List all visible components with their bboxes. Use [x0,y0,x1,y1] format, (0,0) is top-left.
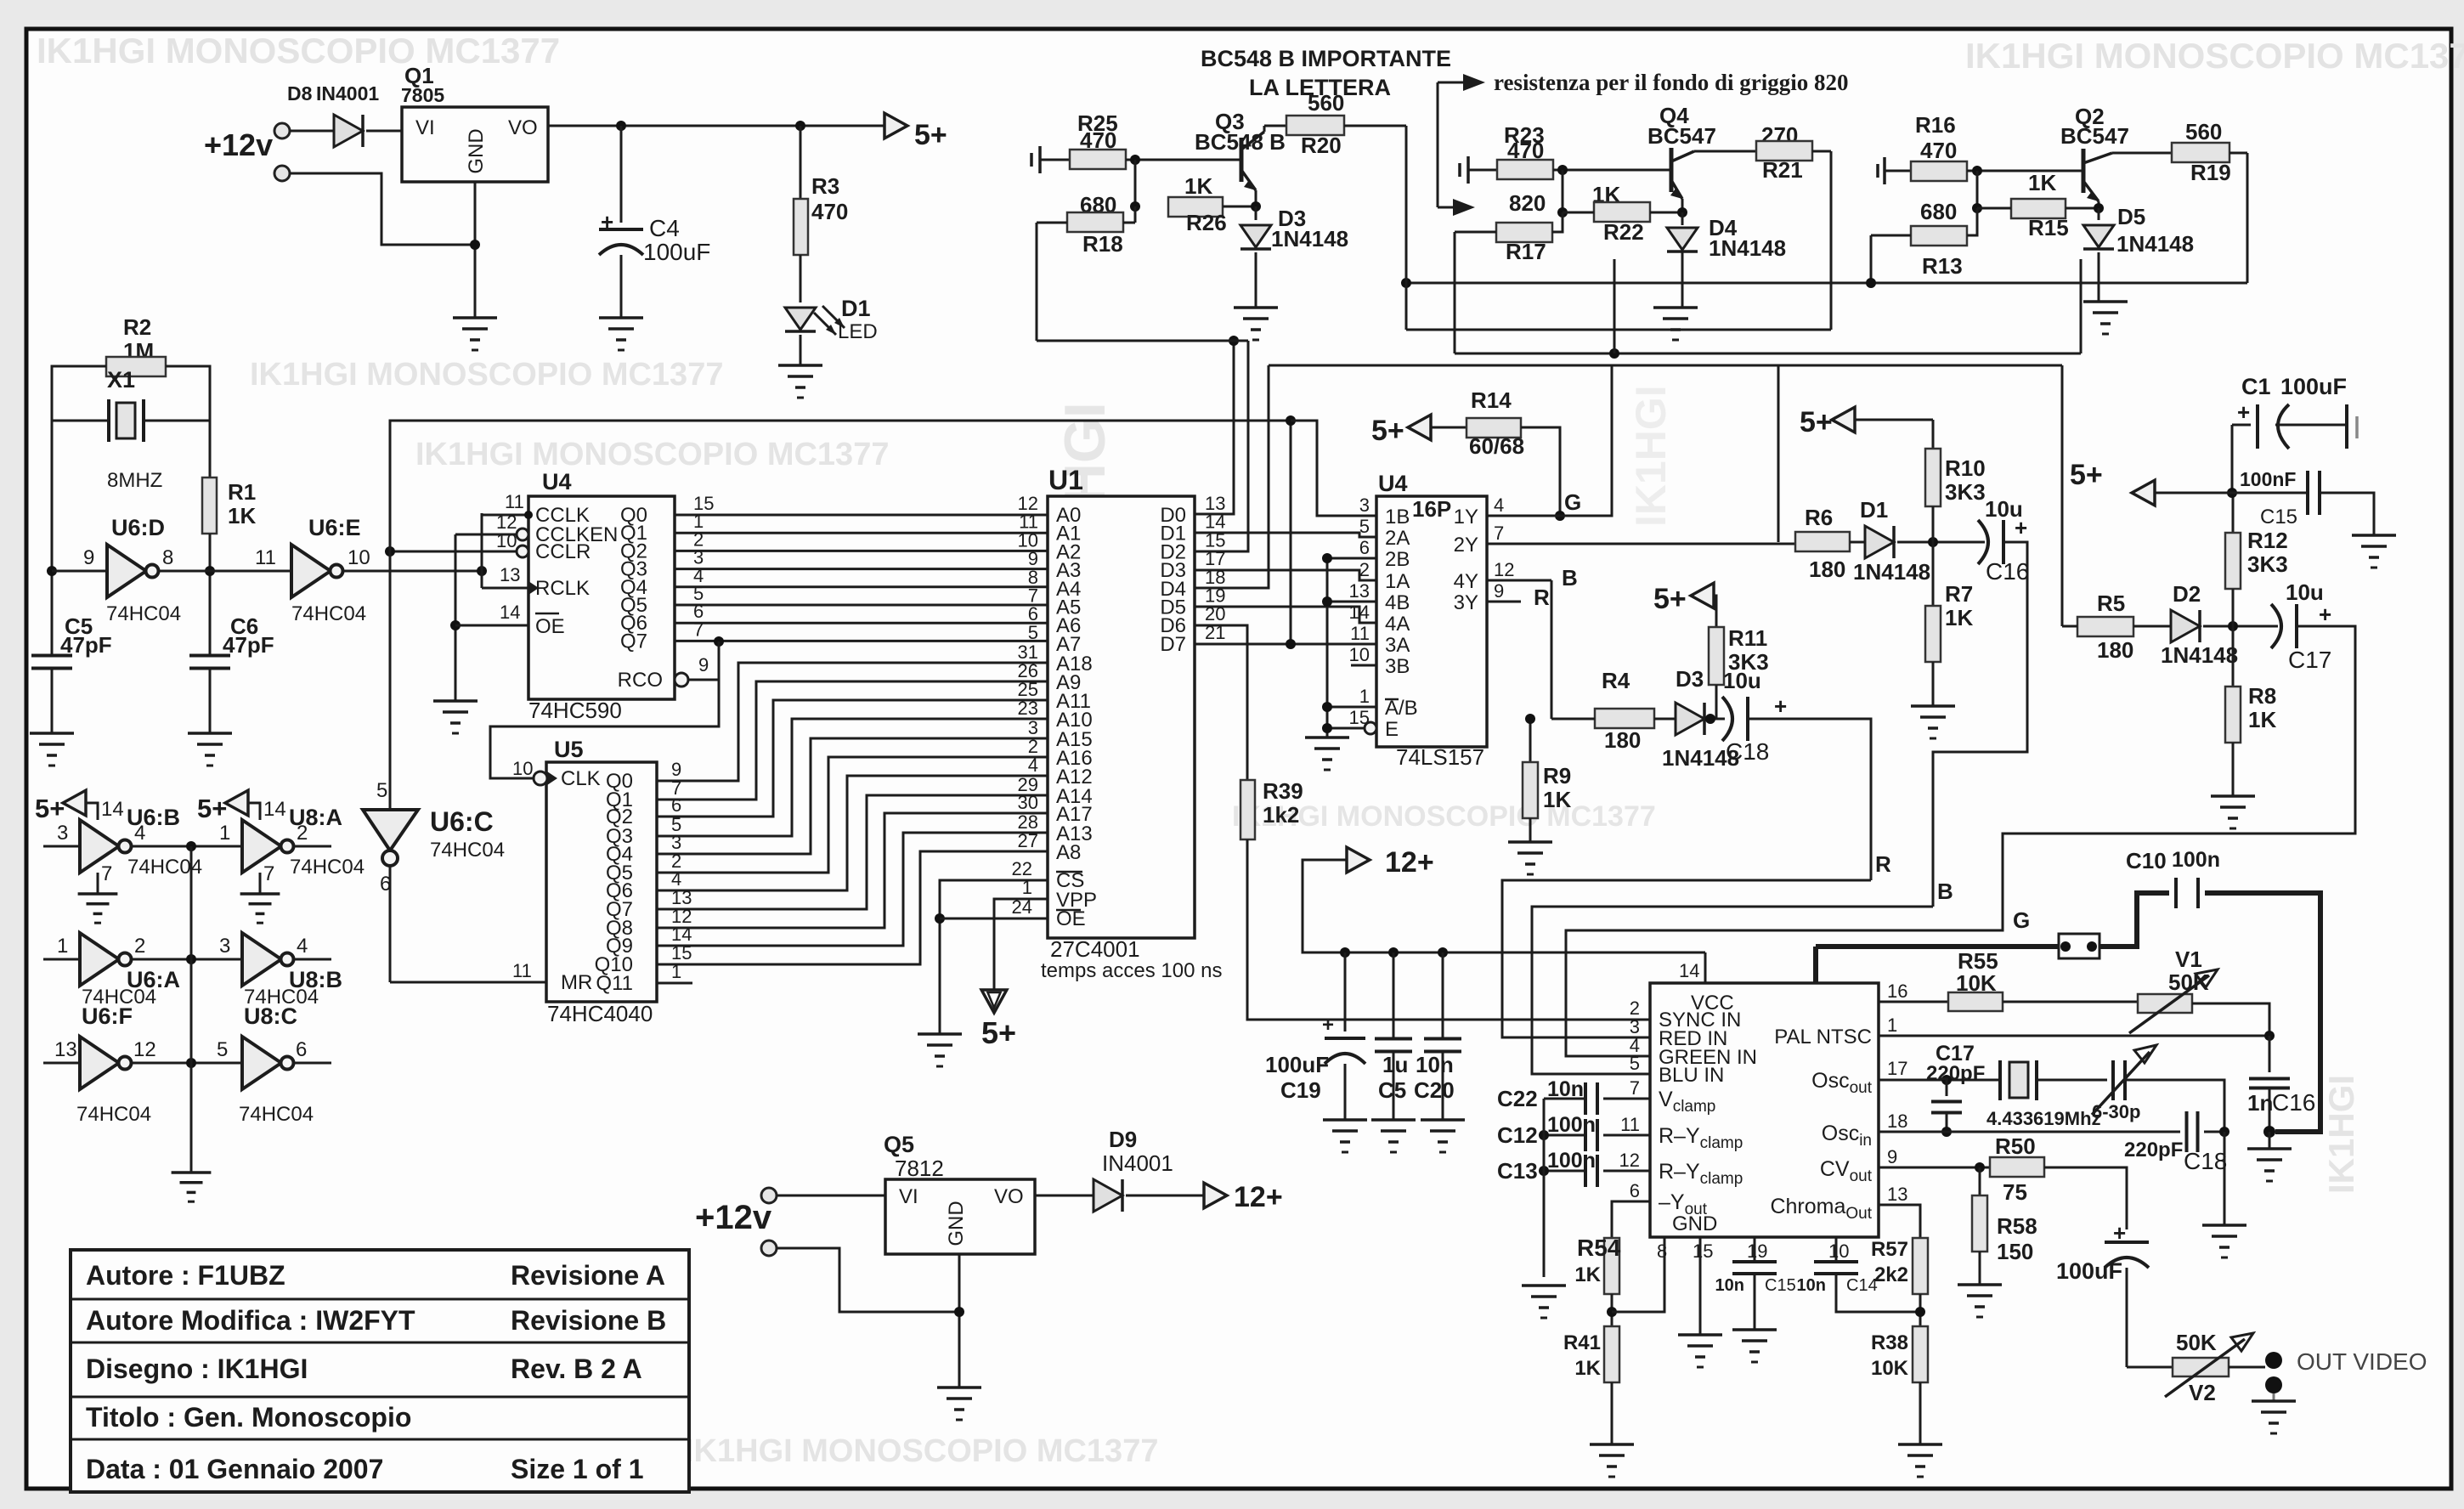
svg-text:7805: 7805 [401,84,444,106]
ground CCLKEN/OE [433,699,478,703]
svg-text:100uF: 100uF [2056,1258,2122,1284]
resistor R11 3K3 [1715,607,1718,627]
svg-text:+: + [1322,1014,1334,1037]
svg-text:BC548 B IMPORTANTE: BC548 B IMPORTANTE [1201,46,1451,71]
svg-text:9: 9 [698,654,709,675]
wire pin6 -Yout to R54 [1612,1201,1650,1239]
ground 74LS157 [1305,736,1349,739]
svg-text:2: 2 [297,822,308,845]
wire 1B riser [1291,421,1376,516]
terminator C1 [2345,404,2348,449]
ground C20 [1421,1118,1465,1122]
svg-text:R13: R13 [1922,253,1963,279]
wire C18 out to R line [1748,719,1871,880]
wire C16 out to B line [1933,542,2027,907]
svg-text:VO: VO [508,116,538,139]
svg-text:C20: C20 [1414,1077,1455,1103]
svg-text:D5: D5 [2117,204,2145,229]
svg-text:Q5: Q5 [884,1132,914,1157]
svg-text:D8: D8 [287,82,313,105]
wire R39 to SYNC IN [1247,839,1650,1020]
svg-text:C16: C16 [2272,1089,2315,1116]
svg-text:10: 10 [348,546,370,569]
svg-text:60/68: 60/68 [1469,433,1524,459]
wire annotation vertical [1437,82,1439,207]
svg-text:5: 5 [1028,622,1038,643]
svg-text:GND: GND [1672,1212,1717,1235]
svg-text:14: 14 [263,798,286,821]
svg-text:IK1HGI MONOSCOPIO MC1377: IK1HGI MONOSCOPIO MC1377 [37,31,560,71]
svg-text:1N4148: 1N4148 [1271,226,1348,251]
svg-text:IN4001: IN4001 [316,82,379,105]
wire 12+ rail [1303,860,1705,952]
wire stub y416 junction [1613,259,1616,353]
wire R17 right [1552,212,1563,232]
ground D3 [1234,306,1278,309]
svg-text:IK1HGI MONOSCOPIO MC1377: IK1HGI MONOSCOPIO MC1377 [250,357,723,393]
svg-text:7: 7 [263,862,274,885]
wire riser to R5 [2061,365,2064,626]
ground D1 [778,364,822,367]
svg-text:13: 13 [500,564,520,585]
svg-text:GND: GND [465,128,488,173]
svg-text:47pF: 47pF [223,632,274,658]
svg-text:9: 9 [1494,580,1504,602]
inverter U8:A [242,820,281,873]
ground stub R25 [1030,153,1033,167]
wire 157 input stubs [1327,557,1376,560]
svg-text:IN4001: IN4001 [1102,1150,1173,1176]
wire D5 to 4A [1195,607,1376,623]
ground R38 [1898,1443,1942,1446]
svg-text:6-30p: 6-30p [2092,1101,2140,1122]
wire C1 down rail [2231,425,2234,493]
svg-text:+: + [2319,602,2331,627]
wire R18 left loop [1037,222,1067,224]
ground R58 [1958,1283,2002,1286]
wire VCC pin14 [1704,952,1707,983]
svg-text:74LS157: 74LS157 [1396,744,1484,770]
svg-text:14: 14 [1349,602,1370,623]
svg-text:C16: C16 [1986,558,2029,585]
svg-text:74HC04: 74HC04 [430,839,505,862]
wire U6:D out to U6:E in [160,570,291,573]
svg-text:U6:D: U6:D [111,515,165,540]
wire D1 to 2A [1195,533,1376,537]
crystal 4.433619Mhz [1998,1060,2002,1100]
svg-text:10: 10 [512,758,533,779]
svg-text:R57: R57 [1871,1238,1908,1261]
svg-text:R2: R2 [123,314,151,340]
wire U8:B out [295,958,331,961]
wire D8 to Q1 [366,130,402,133]
wire 4Y R out [1487,579,1551,582]
wire Q3 collector to R20 [1263,126,1266,132]
ground Q1 [453,316,497,319]
terminal OUT VIDEO [2265,1352,2282,1369]
svg-text:4Y: 4Y [1454,570,1478,593]
capacitor C18 10u [1722,697,1732,741]
svg-text:1K: 1K [228,503,256,528]
inverter U6:D [52,570,107,573]
wire CCLR to U6:C rail [390,551,528,553]
svg-text:U6:C: U6:C [430,806,494,837]
svg-text:R4: R4 [1602,668,1630,693]
wire +12v to D8 [290,130,341,133]
heavy G switch wire [1816,944,2059,949]
svg-text:74HC04: 74HC04 [290,856,365,879]
svg-text:GND: GND [945,1201,968,1246]
svg-text:R41: R41 [1563,1331,1601,1354]
wire VO to D9 [1035,1195,1094,1197]
trimmer 6-30p [2111,1060,2115,1100]
svg-text:74HC04: 74HC04 [76,1103,151,1126]
LED D1 [800,255,802,302]
svg-text:5+: 5+ [914,119,947,151]
svg-text:U6:E: U6:E [308,515,361,540]
svg-text:C10: C10 [2126,848,2167,873]
svg-text:CCLR: CCLR [535,540,591,563]
wire R16 to base [1967,170,2083,172]
wire VPP to 5+ [994,899,1048,992]
wire CCLKEN/OE ground rail [455,534,457,701]
svg-text:1A: 1A [1385,570,1410,593]
svg-text:C15: C15 [2260,506,2297,528]
resistor R8 1K [2232,626,2235,687]
wire R15 ends [1977,207,2011,210]
wire R line to RED IN [1502,880,1871,1037]
svg-text:2: 2 [134,935,145,958]
capacitor C20 10n [1442,952,1444,1038]
svg-text:R7: R7 [1945,581,1973,607]
diode D4 1N4148 [1681,212,1684,225]
svg-text:14: 14 [101,798,124,821]
svg-text:R: R [1875,851,1891,877]
wire C15 to ground [2320,493,2374,535]
regulator Q1 7805 [402,107,548,182]
svg-text:Titolo : Gen. Monoscopio: Titolo : Gen. Monoscopio [86,1402,411,1433]
svg-text:13: 13 [1349,580,1370,602]
svg-text:9: 9 [1887,1146,1897,1167]
svg-text:74HC04: 74HC04 [291,602,366,625]
svg-text:R8: R8 [2248,683,2276,709]
svg-text:U5: U5 [554,737,584,762]
ground C5 [30,732,74,735]
svg-text:4: 4 [1494,495,1504,516]
diode D3 Q3 1N4148 [1255,206,1257,220]
svg-text:10u: 10u [1723,668,1761,693]
wire pin13 ChromaOut to R57 [1879,1205,1920,1239]
svg-text:1B: 1B [1385,506,1410,528]
svg-text:3: 3 [219,935,230,958]
wire pin12 [1603,1170,1650,1173]
svg-text:10n: 10n [1416,1052,1454,1077]
wire R25 junction down [1134,160,1137,206]
wire Q5 return [777,1248,959,1312]
inverter U6:C [363,810,418,851]
svg-text:4: 4 [1028,754,1038,776]
left rail to C5 [51,421,54,655]
wire R18 right [1123,222,1135,224]
wire V1 out [2192,1003,2269,1036]
wire V2 to OUT VIDEO [2229,1366,2265,1369]
svg-text:5+: 5+ [1371,415,1404,447]
svg-text:560: 560 [1308,90,1344,116]
wire OE [940,918,1048,920]
svg-text:100nF: 100nF [2240,468,2296,490]
wire R2 left [52,366,106,421]
svg-text:D2: D2 [2173,581,2201,607]
svg-text:IK1HGI: IK1HGI [2321,1075,2361,1194]
svg-text:3: 3 [57,822,68,845]
svg-text:Autore Modifica : IW2FYT: Autore Modifica : IW2FYT [86,1305,415,1336]
svg-text:R21: R21 [1762,157,1803,183]
svg-text:1K: 1K [1574,1263,1601,1286]
svg-text:2B: 2B [1385,548,1410,571]
wire CCLKEN [455,534,517,536]
svg-text:R12: R12 [2247,528,2288,553]
ground C4 [599,316,643,319]
svg-text:2A: 2A [1385,527,1410,550]
wire pin9 CVout [1879,1167,1990,1169]
resistor R3 470 [800,126,802,199]
capacitor C5 1u [1393,952,1395,1038]
wire pin18 Oscin [1879,1131,2180,1133]
wire Q2 collector to R19 [2112,152,2172,155]
resistor R57 2k2 [1913,1238,1928,1294]
ground stub R16 [1876,164,1879,178]
svg-text:16: 16 [1887,981,1907,1002]
svg-text:1K: 1K [2028,170,2056,195]
svg-text:3B: 3B [1385,655,1410,678]
wire C18 to ground [2204,1131,2224,1133]
svg-text:R11: R11 [1728,625,1767,651]
svg-text:+: + [1774,693,1787,719]
wire D4 riser [1195,365,1269,588]
svg-text:2: 2 [1359,559,1370,580]
svg-text:+: + [2015,515,2027,540]
bus U4 Q0-Q7 to U1 A0-A7 [675,514,1048,517]
diode D1 1N4148 (B channel) [1850,541,1866,544]
resistor R1 1K [209,421,212,478]
svg-text:4A: 4A [1385,613,1410,636]
inverter U6:E [291,545,331,597]
svg-text:5: 5 [1630,1053,1640,1074]
svg-text:C18: C18 [1726,738,1769,765]
svg-text:OE: OE [535,615,565,638]
svg-text:+: + [601,209,613,235]
wire bus y388 [1406,329,1831,331]
svg-text:R5: R5 [2097,591,2125,616]
svg-text:7812: 7812 [895,1156,944,1181]
svg-text:15: 15 [1693,1241,1713,1262]
wire R19 out [2229,152,2247,155]
svg-text:+: + [2237,399,2250,425]
svg-text:BLU IN: BLU IN [1659,1064,1724,1087]
svg-text:7: 7 [1630,1077,1640,1099]
wire CS to ground [940,880,1048,1034]
ground Q5 [937,1386,981,1389]
svg-text:2Y: 2Y [1454,534,1478,557]
arrow 5+ top [884,113,907,138]
svg-text:470: 470 [811,199,848,224]
capacitor C22 10n [1584,1082,1587,1115]
svg-text:12: 12 [1619,1150,1640,1171]
svg-text:7: 7 [101,862,112,885]
ground C5 1u [1371,1118,1416,1122]
wire U6:C out to MR [389,866,392,982]
svg-text:12+: 12+ [1234,1181,1283,1213]
inverter U6:F [80,1037,119,1089]
wire R22 ends [1563,212,1594,214]
svg-text:1: 1 [219,822,230,845]
svg-text:12: 12 [1494,559,1514,580]
capacitor C18 220pF [2185,1111,2189,1152]
wire RCLK [482,587,528,590]
wire riser Q2 collector out [2246,153,2249,283]
ground R41 [1590,1443,1634,1446]
wire riser to R6 [1777,365,1780,542]
svg-text:1u: 1u [1382,1052,1408,1077]
svg-text:6: 6 [296,1038,307,1061]
svg-text:4: 4 [134,822,145,845]
svg-text:D1: D1 [841,296,871,321]
heavy wire C10 to C16 1n [2205,893,2320,1132]
capacitor C16 1n [2269,1036,2271,1072]
ground CS/OE [918,1032,962,1036]
wire R23 to base [1553,169,1670,172]
wire B line to BLU IN [1532,907,1933,1074]
wire U8:A out [295,845,331,848]
wire pin7 Vclamp [1603,1098,1650,1100]
svg-text:1: 1 [1359,686,1370,707]
svg-text:B: B [1937,879,1953,904]
ground D5 [2083,300,2128,303]
svg-text:V1: V1 [2175,947,2202,972]
wire 3Y stub [1487,601,1521,603]
ground stub R23 [1458,163,1461,177]
resistor R7 1K [1932,542,1935,607]
wire R50 right [2044,1167,2127,1229]
ground cap rail [1522,1284,1566,1287]
svg-text:R39: R39 [1263,778,1303,804]
wire U6:B out [133,845,242,848]
wire riser Q3 collector out [1405,126,1408,330]
diode D5 1N4148 [2098,208,2100,220]
svg-text:5+: 5+ [197,794,227,823]
svg-text:4.433619Mhz: 4.433619Mhz [1986,1108,2101,1129]
IC U4 74HC590 [528,496,675,699]
ground C15 [2352,534,2396,537]
svg-text:5: 5 [376,779,387,802]
resistor R41 1K [1604,1326,1619,1382]
svg-text:1N4148: 1N4148 [2116,231,2194,257]
svg-text:R38: R38 [1871,1331,1908,1354]
node D7 feedback rail to U6:C [390,421,1291,810]
wire R20 out [1344,125,1406,127]
svg-text:C12: C12 [1497,1122,1538,1148]
svg-text:180: 180 [1809,557,1845,582]
svg-text:74HC04: 74HC04 [239,1103,314,1126]
wire R17 left loop [1455,231,1496,234]
svg-text:R16: R16 [1915,112,1956,138]
svg-text:100uF: 100uF [1265,1052,1329,1077]
diode D2 1N4148 (G channel) [2133,625,2172,628]
wire RCO stub [688,679,719,681]
svg-text:Data : 01 Gennaio 2007: Data : 01 Gennaio 2007 [86,1454,383,1484]
wire Q1 GND to ground [474,182,477,318]
wire lower terminal return [290,173,474,245]
svg-text:18: 18 [1887,1111,1907,1132]
svg-text:C15: C15 [1765,1276,1796,1295]
svg-text:10n: 10n [1715,1276,1744,1295]
capacitor C15 100nF [2232,492,2307,495]
svg-text:1K: 1K [1574,1357,1601,1380]
ground C16 1n [2269,1132,2271,1149]
wire Q5 GND [958,1254,961,1387]
svg-text:10n: 10n [1797,1276,1826,1295]
svg-text:+12v: +12v [695,1199,772,1236]
svg-text:Q11: Q11 [596,972,633,995]
wire C17 out to G line [1566,626,2355,1056]
svg-text:75: 75 [2003,1179,2027,1205]
svg-text:R14: R14 [1471,387,1512,413]
wire riser Q4 collector out [1830,151,1833,330]
svg-text:U4: U4 [542,469,572,495]
svg-text:CLK: CLK [561,767,601,790]
wire R2 right [166,366,210,421]
svg-text:R17: R17 [1506,239,1546,264]
svg-text:1: 1 [57,935,68,958]
ground C6 [188,732,232,735]
svg-text:R3: R3 [811,173,839,199]
svg-text:6: 6 [1630,1180,1640,1201]
svg-text:A8: A8 [1056,841,1081,864]
svg-text:100uF: 100uF [2280,374,2347,399]
capacitor C17 10u [2271,604,2281,648]
wire MR from U6:C [390,981,546,984]
wire bus y401 [1037,340,1248,342]
svg-text:3Y: 3Y [1454,591,1478,614]
svg-text:1Y: 1Y [1454,506,1478,528]
svg-text:G: G [2013,907,2030,933]
svg-text:Size 1 of 1: Size 1 of 1 [511,1454,644,1484]
svg-text:10: 10 [1828,1241,1849,1262]
svg-text:Revisione A: Revisione A [511,1260,665,1291]
wire riser R18 loop [1036,223,1038,341]
svg-text:Disegno : IK1HGI: Disegno : IK1HGI [86,1354,308,1384]
wire 157 AB E ground rail [1326,558,1329,738]
svg-text:10: 10 [1349,644,1370,665]
svg-text:1K: 1K [1945,605,1973,630]
svg-text:U6:F: U6:F [82,1003,133,1029]
svg-text:R: R [1534,585,1550,610]
svg-text:12+: 12+ [1385,846,1434,879]
svg-text:180: 180 [2097,637,2133,663]
IC U1 27C4001 [1048,496,1195,938]
svg-text:9: 9 [83,546,94,569]
svg-text:50K: 50K [2176,1330,2217,1355]
ground pin15 [1678,1333,1722,1337]
resistor R54 1K [1604,1238,1619,1294]
svg-text:R10: R10 [1945,455,1986,481]
wire Q11 stub [657,982,692,985]
ground R9 [1508,840,1552,844]
svg-text:D7: D7 [1160,633,1186,656]
ground R8 [2211,794,2255,798]
svg-text:RCO: RCO [618,669,663,692]
svg-text:C4: C4 [649,215,680,241]
